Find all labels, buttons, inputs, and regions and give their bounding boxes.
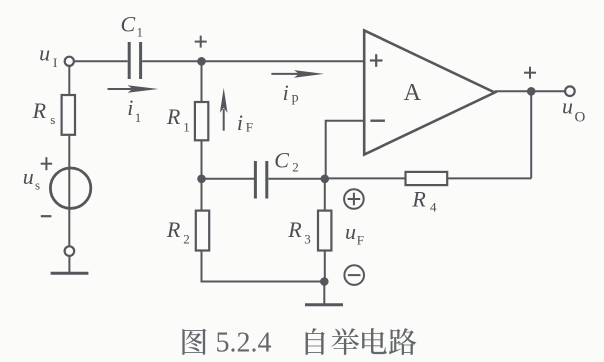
svg-text:2: 2 [183, 231, 190, 246]
node C junction dot [321, 175, 330, 184]
caption char 自 [306, 328, 325, 355]
svg-text:R: R [32, 98, 47, 123]
svg-text:s: s [50, 112, 55, 127]
label u_O [562, 94, 586, 126]
terminal u_I open circle [65, 57, 74, 66]
svg-text:R: R [166, 104, 181, 129]
label u_F [345, 219, 364, 248]
svg-text:1: 1 [183, 119, 190, 134]
op-amp U1 triangle [364, 30, 495, 154]
lower terminal open circle [65, 246, 75, 256]
wire node C to R4 [325, 177, 406, 179]
op-amp noninverting + mark [370, 54, 383, 67]
node E output junction dot [527, 87, 536, 96]
source u_s circle [50, 168, 90, 208]
svg-text:i: i [283, 80, 289, 105]
wire R3 to node D [324, 251, 326, 282]
wire op-amp output to terminal [495, 90, 565, 92]
label u_I [39, 40, 57, 70]
node A junction dot [197, 57, 206, 66]
svg-text:R: R [411, 187, 426, 212]
svg-text:R: R [287, 217, 302, 242]
wire op-amp inverting input to node C [326, 121, 365, 179]
wire R2 down and along bottom to node D [202, 251, 325, 282]
wire R4 to output rail corner [447, 177, 531, 179]
source - polarity [41, 215, 52, 217]
wire u_I terminal to C1 [74, 60, 127, 62]
svg-text:F: F [246, 119, 253, 134]
label R2 [166, 217, 190, 246]
caption char 举 [331, 328, 359, 355]
svg-text:2: 2 [292, 160, 299, 175]
svg-text:p: p [292, 91, 299, 106]
caption char 图 [182, 329, 206, 355]
label R1 [166, 104, 190, 134]
terminal u_O open circle [565, 86, 575, 96]
polarity circle-minus [344, 265, 364, 285]
label R3 [287, 217, 311, 246]
wire node A down to R1 [201, 61, 203, 102]
polarity circle-plus [344, 189, 364, 209]
svg-text:O: O [575, 110, 586, 126]
svg-text:C: C [274, 147, 289, 172]
node D junction dot [320, 277, 329, 286]
wire u_I terminal down to Rs [68, 66, 70, 95]
svg-text:u: u [23, 164, 34, 189]
polarity + above output [524, 67, 536, 79]
ground middle bar [305, 303, 343, 306]
label u_s [23, 164, 40, 193]
op-amp inverting - mark [370, 119, 385, 121]
wire output node down to feedback rail [530, 91, 532, 178]
label i_F [237, 110, 253, 135]
wire Rs through source to lower terminal [68, 135, 70, 247]
resistor R1 [195, 102, 208, 140]
svg-text:4: 4 [430, 200, 437, 215]
svg-text:I: I [53, 55, 57, 70]
wire R1 to node B [201, 140, 203, 179]
capacitor C1 [129, 42, 140, 79]
label C1 [121, 11, 144, 39]
wire node B to C2 [202, 178, 255, 180]
arrow i_1 [108, 85, 159, 93]
svg-text:u: u [345, 219, 356, 244]
source + polarity [41, 157, 52, 170]
label i_1 [127, 95, 141, 125]
resistor R4 [406, 172, 448, 185]
svg-text:5.2.4: 5.2.4 [216, 328, 272, 359]
resistor Rs [62, 95, 75, 135]
label i_p [283, 80, 299, 106]
svg-text:1: 1 [135, 110, 142, 125]
caption char 路 [389, 328, 417, 355]
capacitor C2 [255, 161, 266, 199]
svg-text:i: i [127, 95, 133, 120]
wire lower terminal to ground [68, 256, 70, 272]
svg-text:i: i [237, 110, 243, 135]
arrow i_F [220, 88, 228, 131]
polarity + above node A [195, 36, 207, 48]
resistor R2 [196, 211, 209, 251]
label R4 [411, 187, 437, 215]
wire C1 to op-amp + input (through node A) [142, 60, 364, 62]
wire node C down to R3 [324, 179, 326, 211]
svg-text:C: C [121, 11, 136, 36]
wire C2 to node C [268, 178, 324, 180]
svg-text:A: A [404, 80, 422, 106]
ground left bar [51, 272, 89, 275]
svg-text:u: u [39, 40, 50, 65]
svg-text:s: s [35, 178, 40, 193]
svg-text:R: R [166, 217, 181, 242]
svg-text:F: F [357, 233, 364, 248]
label C2 [274, 147, 299, 174]
label R_s [32, 98, 56, 127]
wire node B down to R2 [201, 179, 203, 211]
arrow i_p [271, 70, 324, 78]
svg-text:1: 1 [137, 24, 144, 39]
node B junction dot [197, 175, 206, 184]
ground middle wire stub [323, 282, 325, 305]
svg-text:3: 3 [304, 231, 311, 246]
caption char 电 [362, 328, 387, 354]
resistor R3 [318, 211, 331, 251]
svg-text:u: u [562, 94, 573, 119]
